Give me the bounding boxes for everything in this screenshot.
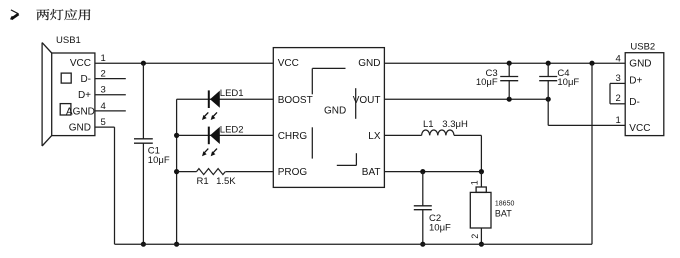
svg-text:2: 2 [616,93,621,104]
connector USB1 body [42,43,95,146]
svg-text:BAT: BAT [362,167,381,178]
wire VOUT rail [384,98,548,100]
svg-text:VOUT: VOUT [353,95,381,106]
svg-text:10μF: 10μF [476,77,498,88]
svg-text:VCC: VCC [70,58,91,69]
capacitor C3 [500,63,518,99]
svg-text:BOOST: BOOST [278,95,313,106]
capacitor C1 [134,63,153,244]
capacitor C4 [539,63,557,99]
wire L1 to battery column [454,135,481,171]
LED LED2 [177,127,274,157]
battery pin1 lead [480,172,482,187]
svg-text:3.3μH: 3.3μH [442,119,468,130]
U1 internal bar right [355,88,357,119]
junction R1 row [174,169,179,174]
capacitor C2 [414,172,432,245]
USB2 D+/D- shorting bracket [610,83,625,103]
svg-text:4: 4 [101,101,106,112]
junction C1 top [141,61,146,66]
title 两灯应用 [36,9,90,20]
junction C1 bottom [141,242,146,247]
charger IC U1 box [273,48,384,188]
svg-text:GND: GND [358,58,380,69]
svg-text:PROG: PROG [278,167,308,178]
svg-text:18650: 18650 [495,200,515,207]
U1 internal bracket bottom [337,153,357,165]
svg-text:5: 5 [101,117,106,128]
U1 internal bar left [311,127,313,158]
junction C3 top [507,61,512,66]
svg-text:D-: D- [80,74,91,85]
svg-text:LED2: LED2 [220,124,244,135]
svg-text:GND: GND [629,59,651,70]
svg-text:10μF: 10μF [148,155,170,166]
svg-text:GND: GND [69,122,91,133]
wire VOUT down to USB2 pin1 [548,99,625,125]
USB1 pin 2 stub [95,78,126,80]
svg-text:VCC: VCC [278,58,299,69]
svg-text:2: 2 [101,69,106,80]
svg-text:D+: D+ [629,75,642,86]
junction C3 bottom [507,97,512,102]
svg-text:1: 1 [101,53,106,64]
svg-text:LX: LX [368,131,381,142]
U1 internal bracket top [312,68,345,94]
svg-text:L1: L1 [423,119,434,130]
svg-text:USB2: USB2 [630,41,655,52]
svg-text:1: 1 [470,180,480,185]
junction C4 top [546,61,551,66]
wire GND rail IC to USB2 [384,62,625,64]
wire VCC rail USB1 pin1 to IC [95,62,273,64]
svg-text:3: 3 [616,73,621,84]
svg-text:10μF: 10μF [557,77,579,88]
wire USB1 pin5 to bottom rail [95,127,115,244]
svg-text:AGND: AGND [66,106,95,117]
USB1 pin name AGND with key square [60,104,95,118]
wire LX to L1 [384,134,421,136]
junction battery top [479,169,484,174]
junction LED column bottom [174,242,179,247]
svg-text:1.5K: 1.5K [216,176,236,187]
USB1 pin 4 stub [95,110,126,112]
junction LED2 row [174,133,179,138]
bottom GND rail [115,243,593,245]
wire BAT rail [384,171,481,173]
svg-text:2: 2 [470,234,480,239]
svg-text:USB1: USB1 [56,35,81,46]
junction battery bottom [479,242,484,247]
svg-text:10μF: 10μF [429,222,451,233]
junction GND drop top [589,61,594,66]
battery 18650 body [470,187,491,228]
USB1 pin 3 stub [95,94,126,96]
svg-text:GND: GND [324,105,346,116]
USB1 detect square [61,73,71,83]
junction C2 top [420,169,425,174]
svg-text:1: 1 [616,115,621,126]
wire LED/R1 common vertical [176,99,178,244]
svg-text:BAT: BAT [495,208,512,218]
junction C4 bottom [546,97,551,102]
resistor R1 [177,169,274,175]
junction C2 bottom [420,242,425,247]
svg-text:VCC: VCC [629,123,650,134]
wire GND drop to bottom rail [591,63,593,244]
svg-text:D+: D+ [78,90,91,101]
connector USB2 body [625,53,664,136]
battery pin2 lead [480,228,482,244]
svg-text:4: 4 [616,53,621,64]
svg-text:D-: D- [629,97,640,108]
svg-text:CHRG: CHRG [278,131,308,142]
svg-text:3: 3 [101,85,106,96]
LED LED1 [177,90,274,120]
section bullet [11,10,19,20]
svg-text:LED1: LED1 [220,88,244,99]
svg-text:R1: R1 [197,176,209,187]
inductor L1 [422,130,454,135]
